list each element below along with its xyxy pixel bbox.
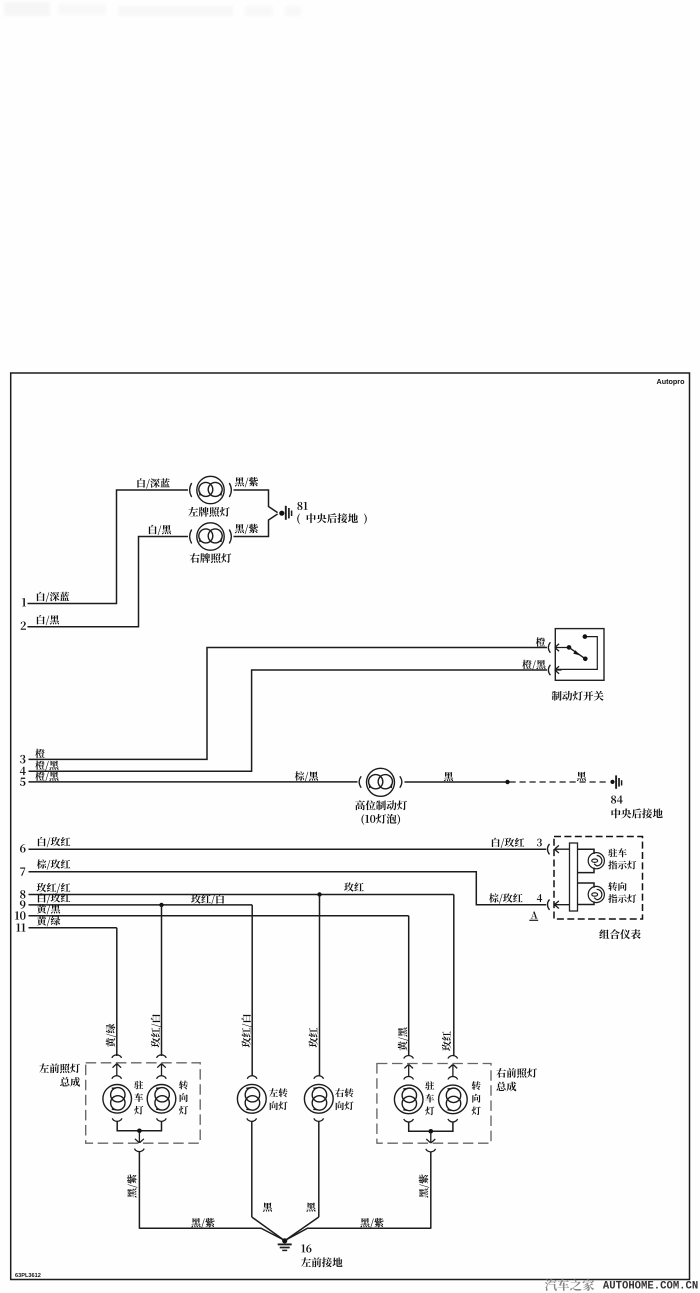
lamp 左转向灯	[237, 1084, 266, 1113]
wire 7 brown/rose	[29, 872, 547, 905]
wire 9 label 白/玫红	[38, 893, 70, 903]
wire 8 label 玫红/红	[37, 883, 71, 893]
label 橙 at switch	[536, 637, 545, 646]
label 黑 right turn	[306, 1202, 315, 1211]
rotated label 黑/紫 right	[419, 1174, 429, 1197]
right box parking entry connector	[404, 1056, 414, 1059]
label 指示灯 turn	[608, 894, 636, 903]
wire 7 label right 棕/玫红 4	[489, 893, 542, 903]
label 驻车灯 left stacked	[134, 1081, 143, 1115]
rotated label 黑/紫 left	[127, 1174, 137, 1197]
lamp 转向灯 right	[439, 1085, 468, 1114]
left box lamp connectors bottom	[112, 1118, 166, 1121]
left box exit arrow	[135, 1132, 144, 1143]
label 制动灯开关	[552, 691, 604, 701]
left box turn entry connector	[157, 1055, 167, 1058]
border frame	[11, 373, 690, 1280]
label 黑/紫 lower	[235, 524, 258, 534]
svg-text:63PL3612: 63PL3612	[15, 1273, 41, 1279]
lamp 高位制动灯	[366, 768, 394, 796]
instrument cluster box 组合仪表	[554, 837, 643, 920]
wire 2 white/black	[28, 537, 189, 627]
right turn lamp ground wire	[318, 1122, 320, 1218]
wire 3 orange	[29, 648, 548, 760]
label 黑/紫 bus left	[191, 1218, 214, 1228]
ground 84 label 中央后接地	[611, 808, 662, 818]
label 驻车	[608, 848, 627, 857]
rotated label 玫红/白 left turn	[241, 1014, 251, 1047]
wire 2 label 白/黑	[37, 615, 59, 625]
connector at switch pin top	[548, 642, 550, 653]
wire 10 yellow/black	[29, 915, 409, 917]
wire 8 junction dot	[317, 892, 321, 896]
switch inner wire	[556, 637, 597, 670]
connector at cluster pin 4	[547, 899, 549, 910]
wire 8 vertical to right box	[453, 895, 455, 1057]
pin number 1	[22, 598, 26, 606]
pin number 6	[20, 844, 26, 853]
parking indicator lamp 驻车指示灯	[588, 853, 604, 869]
left ground bus	[139, 1228, 283, 1240]
rotated label 玫红/白 left box	[151, 1014, 161, 1047]
wire 9 vertical to left turn lamp	[251, 905, 253, 1076]
wire 8 branch vertical to right turn lamp	[319, 895, 321, 1077]
switch arm with arrowhead	[569, 647, 585, 658]
connector at cluster pin 3	[547, 844, 549, 855]
page reference A underlined	[529, 912, 538, 921]
left turn diagonal to ground	[252, 1217, 284, 1240]
left turn lamp ground wire	[251, 1122, 253, 1218]
wire 6 label 白/玫红	[38, 837, 70, 847]
right turn lamp connector bottom	[314, 1118, 324, 1121]
right box parking lamp connector top	[404, 1076, 414, 1079]
right box turn entry arrow	[449, 1064, 458, 1076]
switch pin arrow top	[555, 644, 569, 652]
ground 84 dot	[610, 780, 614, 784]
right box lamp connectors bottom	[404, 1119, 458, 1122]
lamp 转向灯 left	[147, 1085, 176, 1114]
turn indicator lamp 转向指示灯	[588, 886, 604, 902]
lamp 右转向灯	[304, 1084, 333, 1113]
wire 10 vertical to right box	[408, 916, 410, 1056]
wire 6 white/rose	[29, 848, 547, 850]
wire 4 label 橙/黑	[35, 760, 58, 770]
label 转向	[608, 882, 626, 891]
label 黑 left turn	[263, 1202, 272, 1211]
right box merge wires	[409, 1122, 453, 1131]
wire 6 label right 白/玫红 3	[492, 838, 542, 848]
rotated label 黄/黑	[398, 1027, 408, 1050]
connector left of 高位制动灯	[359, 776, 361, 788]
wire 2 upper label 白/黑	[149, 525, 171, 535]
svg-text:AUTOHOME.COM.CN: AUTOHOME.COM.CN	[603, 1281, 698, 1293]
pin number 11	[16, 923, 25, 931]
pin number 4	[20, 767, 26, 775]
left box turn entry arrow	[157, 1064, 166, 1076]
pin number 2	[21, 621, 26, 629]
connector left of lamp 左牌照灯	[190, 483, 192, 497]
right box merge dot	[429, 1129, 434, 1134]
wire black/purple from 右牌照灯	[234, 514, 278, 537]
switch pin arrow bottom	[555, 666, 562, 674]
pin number 7	[20, 867, 25, 875]
label 转向灯 left stacked	[179, 1081, 188, 1115]
wire 7 label 棕/玫红	[37, 859, 71, 869]
watermark AUTOHOME.COM.CN	[603, 1281, 698, 1293]
label 指示灯 parking	[608, 861, 636, 870]
label 右牌照灯	[190, 553, 231, 563]
label 向灯 left	[270, 1101, 288, 1110]
label 总成 left	[60, 1077, 80, 1087]
drawing number 63PL3612	[15, 1273, 41, 1279]
label 橙/黑 at switch	[522, 660, 545, 670]
left turn lamp connector bottom	[247, 1118, 257, 1121]
label 驻车灯 right stacked	[425, 1081, 434, 1115]
brake light switch box 制动灯开关	[555, 629, 604, 681]
connector at switch pin bottom	[548, 665, 550, 676]
label 棕/黑	[295, 771, 318, 781]
right turn lamp connector top	[314, 1076, 324, 1079]
wire 4 orange/black	[29, 670, 548, 771]
wire 11 vertical to left box	[116, 928, 118, 1056]
connector right of 高位制动灯	[400, 776, 402, 788]
right box parking entry arrow	[404, 1064, 413, 1076]
parking indicator lamp wiring	[578, 849, 595, 872]
wire 9 branch vertical to left box	[161, 905, 163, 1056]
pin number 9	[20, 900, 26, 909]
lamp 左牌照灯	[197, 476, 224, 503]
wire 5 orange/black	[29, 781, 358, 783]
right ground bus	[286, 1228, 431, 1240]
right box exit connector	[426, 1149, 436, 1152]
cluster connector bar	[570, 843, 578, 911]
right box ground wire	[430, 1152, 432, 1229]
left box parking lamp connector top	[112, 1076, 122, 1079]
left turn lamp connector top	[247, 1076, 257, 1079]
wire 3 label 橙	[35, 749, 44, 758]
wire 1 upper label 白/深蓝	[137, 478, 169, 488]
label 转向灯 right stacked	[472, 1081, 481, 1115]
faint watermark top-left	[4, 2, 301, 16]
ground 81 junction dot	[279, 511, 284, 516]
left front lamp assembly box	[86, 1063, 201, 1143]
label 向灯 right	[336, 1101, 354, 1110]
wire 1 white/dark-blue	[28, 490, 189, 604]
Autopro logo	[657, 377, 686, 386]
watermark 汽车之家	[545, 1279, 594, 1291]
wire 9 white/rose	[29, 904, 253, 906]
lamp 右牌照灯	[197, 523, 224, 550]
ground 81 number	[297, 502, 307, 510]
label (10灯泡)	[361, 814, 400, 825]
switch common contact dot	[567, 645, 572, 650]
svg-text:Autopro: Autopro	[657, 377, 686, 386]
pin number 3	[20, 755, 25, 764]
left box merge wires	[117, 1122, 161, 1131]
wire 8 branch label 玫红	[344, 882, 364, 891]
label 左牌照灯	[188, 507, 230, 517]
dashed wire to ground 84	[510, 781, 609, 783]
turn indicator lamp wiring	[578, 883, 595, 905]
label 黑/紫 upper	[235, 477, 258, 487]
right box exit arrow	[426, 1133, 435, 1144]
pin number 5	[20, 778, 26, 786]
right turn diagonal to ground	[285, 1217, 319, 1240]
connector left of lamp 右牌照灯	[190, 530, 192, 544]
lamp 驻车灯 left	[103, 1085, 132, 1114]
splice dot	[505, 780, 509, 784]
ground 84 symbol	[616, 775, 622, 788]
wire 11 yellow/green	[29, 927, 117, 929]
label 黑 dashed	[577, 772, 586, 781]
ground 81 label 中央后接地	[297, 513, 367, 524]
wire 9 label 玫红/白	[191, 894, 224, 904]
rotated label 玫红 right turn	[309, 1028, 318, 1048]
lamp 驻车灯 right	[394, 1085, 423, 1114]
left box parking entry arrow	[113, 1064, 122, 1076]
wire 5 label 橙/黑	[35, 771, 58, 781]
right box turn lamp connector top	[448, 1076, 458, 1079]
pin number 10	[15, 911, 26, 920]
cluster pin 3 arrow	[554, 845, 569, 853]
left box parking entry connector	[112, 1055, 122, 1058]
switch arm end dot	[583, 657, 588, 662]
rotated label 黄/绿	[106, 1024, 116, 1048]
label 总成 right	[496, 1082, 516, 1092]
left box exit connector	[135, 1149, 145, 1152]
label 左转	[269, 1088, 288, 1097]
label 右转	[335, 1088, 353, 1097]
label 高位制动灯	[355, 800, 407, 810]
left box merge dot	[137, 1129, 142, 1134]
cluster pin 4 arrow	[554, 901, 569, 909]
ground 84 number	[611, 795, 623, 803]
ground 81 symbol	[286, 506, 292, 520]
right box turn entry connector	[448, 1056, 458, 1059]
rotated label 玫红 right box	[442, 1031, 451, 1051]
ground 16 number	[301, 1244, 311, 1252]
label 右前照灯	[496, 1068, 537, 1078]
ground 16 symbol	[278, 1244, 292, 1250]
left box ground wire	[138, 1152, 140, 1229]
wire 8 rose/red	[29, 894, 454, 896]
connector right of lamp 右牌照灯	[229, 530, 231, 544]
wire 11 label 黄/绿	[37, 916, 61, 926]
label 黑/紫 bus right	[360, 1218, 383, 1228]
switch fixed contact dot	[583, 634, 588, 639]
ground 16 label 左前接地	[301, 1257, 343, 1267]
wire black/purple from 左牌照灯	[234, 490, 278, 513]
label 组合仪表	[599, 929, 640, 939]
left box turn lamp connector top	[157, 1076, 167, 1079]
pin number 8	[20, 890, 25, 899]
wire black to splice	[405, 781, 507, 783]
ground 16 dot	[282, 1238, 287, 1243]
wire 9 junction dot	[159, 903, 163, 907]
label 黑	[444, 772, 453, 781]
wire 1 label 白/深蓝	[37, 592, 69, 602]
wire 10 label 黄/黑	[37, 904, 60, 914]
label 左前照灯	[39, 1063, 80, 1073]
connector right of lamp 左牌照灯	[229, 483, 231, 497]
right front lamp assembly box	[377, 1064, 491, 1144]
